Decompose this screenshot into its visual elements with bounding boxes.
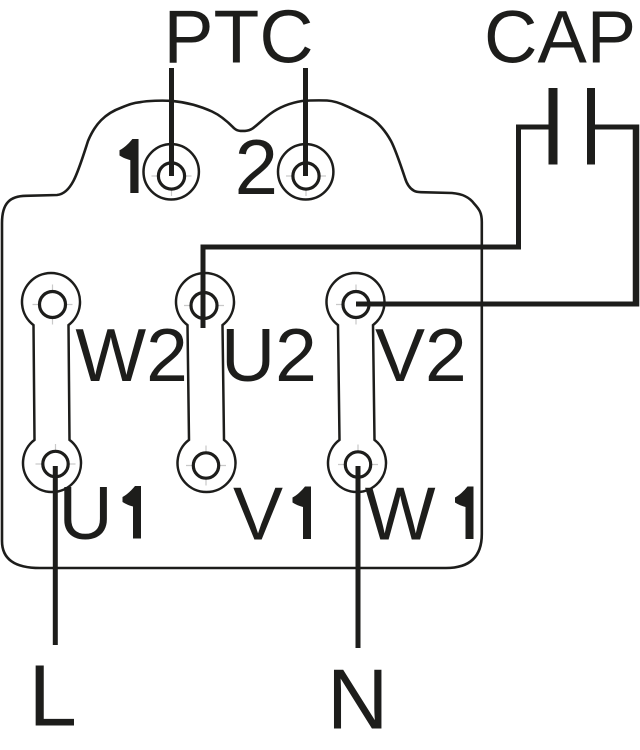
svg-text:L: L bbox=[29, 648, 77, 745]
wire CAP left to U2 bbox=[203, 127, 549, 328]
svg-text:2: 2 bbox=[235, 123, 278, 211]
terminal box outline bbox=[2, 100, 482, 568]
wire W1 to N bbox=[356, 466, 361, 648]
svg-text:U: U bbox=[59, 471, 113, 555]
svg-text:W2: W2 bbox=[75, 313, 187, 397]
svg-text:U2: U2 bbox=[221, 313, 317, 397]
label 1 bbox=[120, 139, 139, 193]
link V2-W1 bbox=[327, 273, 387, 492]
svg-text:V2: V2 bbox=[375, 313, 467, 397]
link U2-V1 bbox=[176, 273, 236, 492]
capacitor plate right bbox=[587, 88, 595, 165]
PTC terminal 2 bbox=[278, 144, 333, 199]
svg-text:V: V bbox=[233, 472, 283, 556]
svg-text:PTC: PTC bbox=[164, 0, 314, 79]
wire U1 to L bbox=[53, 466, 58, 645]
svg-text:W: W bbox=[365, 472, 436, 556]
PTC terminal 1 bbox=[144, 144, 199, 199]
wire PTC 2 bbox=[303, 68, 308, 176]
link W2-U1 bbox=[22, 273, 81, 492]
capacitor plate left bbox=[549, 88, 558, 165]
wire CAP right to V2 bbox=[356, 127, 636, 304]
svg-text:N: N bbox=[327, 653, 388, 748]
svg-text:CAP: CAP bbox=[484, 0, 636, 79]
wire PTC 1 bbox=[169, 68, 174, 176]
